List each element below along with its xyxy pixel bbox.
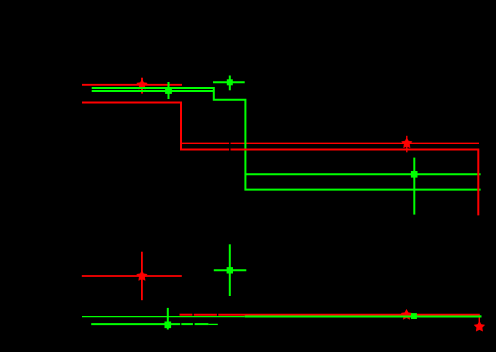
red histogram (upper panel) bbox=[82, 103, 478, 216]
ratio thin green line (histogram, left part) bbox=[82, 316, 245, 318]
ratio far-right red star marker bbox=[474, 321, 485, 331]
ratio green point 1 error bars bbox=[91, 308, 218, 330]
ratio red line (error bar of middle red point, with small gaps) bbox=[180, 314, 480, 316]
green histogram (upper panel) bbox=[92, 88, 481, 190]
green point 3 error bars (upper panel) bbox=[245, 158, 480, 215]
ratio green point 2 error bars bbox=[214, 244, 247, 296]
ratio red point 1 error bars bbox=[82, 252, 182, 301]
ratio green square marker (middle, on line) bbox=[411, 313, 417, 319]
green square marker 3 (upper panel) bbox=[411, 171, 418, 178]
red point 2 error bars (upper panel) bbox=[181, 136, 479, 153]
red star marker 1 (upper panel) bbox=[137, 79, 148, 89]
ratio green square marker 2 bbox=[227, 267, 233, 273]
red star marker 2 (upper panel) bbox=[401, 138, 412, 148]
ratio thick green line (error bar, right part) bbox=[245, 316, 482, 318]
ratio green square marker 1 bbox=[165, 322, 172, 329]
ratio green line end bump (right edge) bbox=[479, 315, 481, 317]
black notch over red lines at x=229.7 (upper panel) bbox=[229, 142, 230, 144]
green point 1 error bars (upper panel) bbox=[92, 82, 214, 99]
red point 1 error bars (upper panel) bbox=[82, 78, 182, 94]
ratio red star marker (middle, on line) bbox=[401, 309, 412, 319]
ratio red star marker 1 bbox=[137, 270, 148, 280]
green point 2 error bars (upper panel) bbox=[213, 76, 245, 91]
green square marker 1 (upper panel) bbox=[165, 87, 172, 94]
ratio far-right red point error bar bbox=[478, 316, 480, 323]
green square marker 2 (upper panel) bbox=[227, 79, 233, 85]
